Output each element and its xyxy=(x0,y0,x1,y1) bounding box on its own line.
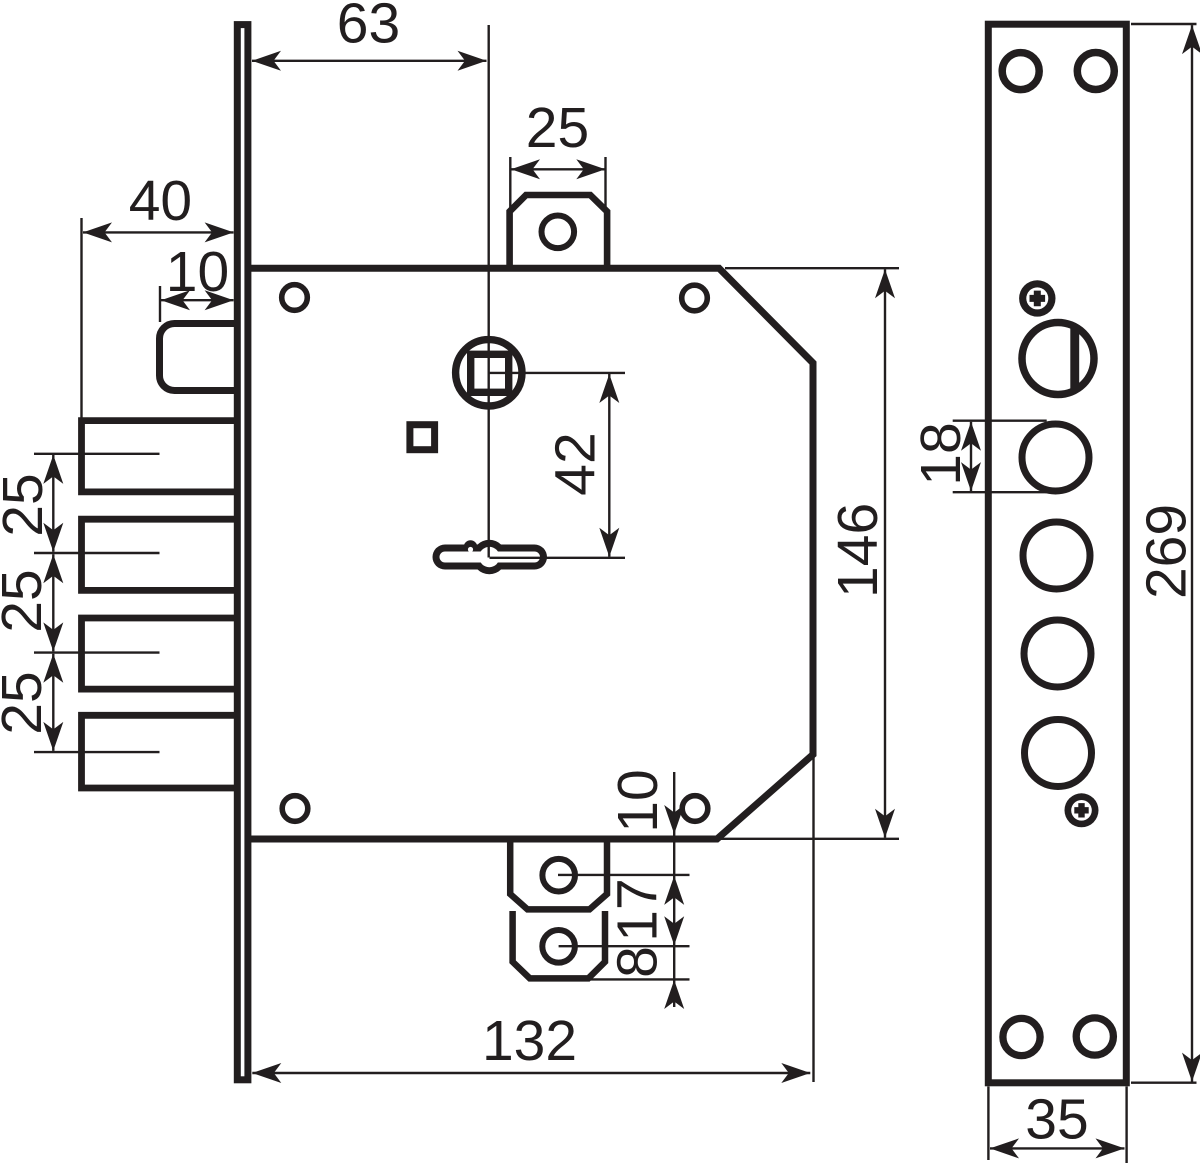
svg-text:42: 42 xyxy=(543,432,607,495)
dim 42 line xyxy=(608,374,610,557)
vertical centre line xyxy=(488,25,490,558)
svg-text:10: 10 xyxy=(606,769,670,832)
plate phillips screw upper xyxy=(1019,280,1055,316)
bottom latch hole upper xyxy=(542,859,575,892)
dim 269 line xyxy=(1191,25,1193,1082)
stop pin square xyxy=(410,425,435,450)
deadbolt 2 xyxy=(82,519,238,590)
auxiliary latch rounded xyxy=(160,324,241,391)
spindle square xyxy=(471,354,509,392)
svg-text:269: 269 xyxy=(1134,504,1198,599)
dim 25 left c xyxy=(52,654,54,751)
svg-text:25: 25 xyxy=(0,473,55,536)
plate hole bottom-right xyxy=(1076,1018,1113,1055)
top latch piece xyxy=(510,195,607,268)
svg-text:25: 25 xyxy=(0,671,54,734)
bottom latch hole lower xyxy=(542,930,575,963)
body screw hole bottom-right xyxy=(682,796,708,822)
plate bore 1 xyxy=(1022,424,1089,491)
dim 18 ext top xyxy=(953,420,1047,422)
spindle hub circle xyxy=(456,340,522,406)
svg-text:35: 35 xyxy=(1025,1087,1088,1151)
dim 10 line xyxy=(161,299,234,301)
dim 35 ext right xyxy=(1125,1087,1127,1164)
body screw hole top-right xyxy=(682,285,708,311)
dim 269 ext top xyxy=(1131,23,1197,25)
dim 25 top ext left xyxy=(509,157,511,208)
dim 146 line xyxy=(884,269,886,837)
top latch hole xyxy=(542,216,575,249)
body screw hole top-left xyxy=(282,285,308,311)
deadbolt 1 xyxy=(82,421,238,492)
plate slotted cam disc xyxy=(1022,323,1094,395)
lock body outline xyxy=(248,268,813,839)
dim 8 line xyxy=(673,946,675,979)
svg-text:146: 146 xyxy=(826,503,890,598)
latch centreline lower xyxy=(559,945,690,947)
dim 25 top ext right xyxy=(604,157,606,208)
dim 18 ext bottom xyxy=(953,491,1047,493)
dim 42 ext bottom xyxy=(490,557,626,559)
dim 8 tail xyxy=(673,980,675,1007)
deadbolt 4 xyxy=(82,715,238,788)
svg-text:25: 25 xyxy=(0,569,54,632)
svg-text:40: 40 xyxy=(129,169,192,233)
latch bottom ext xyxy=(589,978,690,980)
dim 63 line xyxy=(252,60,487,62)
dim 35 ext left xyxy=(987,1087,989,1161)
svg-text:18: 18 xyxy=(909,422,973,485)
dim 42 ext top xyxy=(489,372,625,374)
dim 35 line xyxy=(990,1147,1125,1149)
dim 18 line xyxy=(970,422,972,491)
keyhole xyxy=(433,540,548,574)
bottom latch piece upper xyxy=(510,839,607,909)
dim 269 ext bottom xyxy=(1131,1081,1197,1083)
dim 40 line xyxy=(83,231,234,233)
svg-text:10: 10 xyxy=(166,240,229,304)
latch centreline upper xyxy=(558,874,690,876)
bolt centreline 3 xyxy=(34,651,160,653)
dim 10 bottom line xyxy=(673,772,675,875)
svg-text:132: 132 xyxy=(482,1009,577,1073)
plate hole top-right xyxy=(1077,53,1114,90)
body screw hole bottom-left xyxy=(282,796,308,822)
plate bore 4 xyxy=(1025,720,1092,787)
plate hole top-left xyxy=(1002,53,1039,90)
dim 17 line xyxy=(673,876,675,945)
faceplate xyxy=(237,25,248,1080)
dim 10 ext xyxy=(159,286,161,322)
svg-text:25: 25 xyxy=(526,96,589,160)
dim 132 line xyxy=(252,1072,810,1074)
dim 132 ext right xyxy=(812,756,814,1082)
plate bore 3 xyxy=(1024,620,1091,687)
deadbolt 3 xyxy=(82,618,238,689)
plate phillips screw lower xyxy=(1065,793,1099,827)
strike box plate xyxy=(988,24,1126,1083)
plate hole bottom-left xyxy=(1003,1018,1040,1055)
svg-text:8: 8 xyxy=(605,946,669,978)
dim 146 ext top xyxy=(725,267,899,269)
svg-text:17: 17 xyxy=(605,878,669,941)
dim 25 top line xyxy=(511,168,605,170)
bolt centreline 2 xyxy=(34,552,160,554)
bottom latch piece lower xyxy=(513,911,605,978)
dim 10 bottom arrowhead xyxy=(664,805,684,834)
dim 146 ext bottom xyxy=(717,838,899,840)
dim 40 ext xyxy=(80,218,82,418)
bolt centreline 4 xyxy=(34,751,160,753)
plate bore 2 xyxy=(1023,522,1090,589)
svg-text:63: 63 xyxy=(337,0,400,55)
dim 25 left b xyxy=(52,554,54,651)
dim 25 left a xyxy=(52,455,54,552)
bolt centreline 1 xyxy=(34,453,160,455)
